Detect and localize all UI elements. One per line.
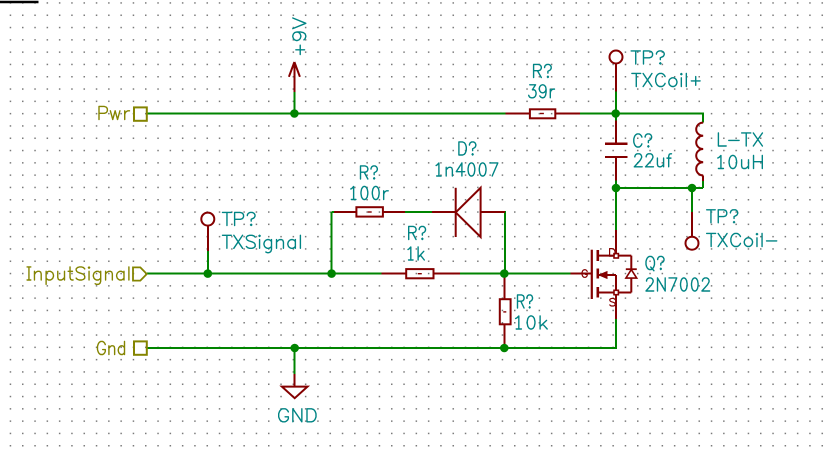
node 10k bottom bbox=[500, 344, 509, 353]
port Pwr box bbox=[134, 107, 147, 120]
test point TP TXSignal circle bbox=[201, 213, 214, 226]
node TXCoil- bbox=[688, 184, 697, 193]
label +9V vertical bbox=[293, 18, 306, 55]
node C/L bottom bbox=[612, 184, 621, 193]
wire drain link green bbox=[615, 188, 617, 230]
resistor R3 1k body bbox=[406, 269, 433, 278]
port Gnd box bbox=[134, 341, 147, 354]
label TP? of TXSignal bbox=[223, 212, 256, 225]
resistor R1 39r body bbox=[530, 109, 555, 118]
wire TP TXSignal stem green bbox=[207, 251, 209, 274]
label TP? of TXCoil- bbox=[707, 210, 738, 223]
node gate/10k bbox=[500, 269, 509, 278]
wire Gnd bus bbox=[147, 347, 617, 349]
node +9V/Pwr bbox=[290, 109, 299, 118]
wire GND stem green bbox=[294, 348, 296, 374]
label R? of 100r bbox=[361, 166, 378, 179]
wire inductor stubs green bbox=[702, 114, 704, 189]
node top right bbox=[611, 109, 620, 118]
test point TP TXCoil- circle bbox=[686, 237, 699, 250]
label R? of 10k bbox=[518, 295, 533, 308]
label 10k bbox=[516, 316, 548, 329]
label Q? bbox=[646, 256, 664, 270]
power symbol +9V arrow bbox=[289, 62, 300, 77]
label R? of 1k bbox=[409, 226, 426, 239]
wire TP TXCoil- stem green bbox=[691, 188, 693, 212]
label C? bbox=[634, 134, 652, 147]
label 22uf bbox=[634, 154, 671, 167]
label TXCoil+ bbox=[632, 73, 700, 86]
diode D1 bbox=[456, 188, 481, 237]
wire bottom LC link bbox=[616, 187, 703, 189]
wire Pwr bus right segment bbox=[580, 113, 704, 115]
ground symbol GND triangle bbox=[282, 387, 308, 399]
label L-TX bbox=[718, 133, 762, 146]
test point TP TXCoil+ circle bbox=[610, 51, 623, 64]
inductor L-TX coil bbox=[696, 123, 703, 176]
label R? of 39r bbox=[534, 64, 552, 77]
sheet border fragment top-left bbox=[0, 1, 39, 3]
port InputSignal pentagon bbox=[133, 267, 147, 280]
label InputSignal bbox=[27, 267, 129, 284]
pin label D bbox=[610, 249, 615, 257]
transistor Q1 2N7002 bbox=[592, 250, 637, 299]
capacitor C1 plates bbox=[605, 144, 628, 157]
wire TP TXCoil+ stem green bbox=[615, 91, 617, 113]
wire diode anode corner green bbox=[504, 212, 506, 274]
label 1n4007 bbox=[436, 163, 498, 176]
node 100r branch bbox=[327, 269, 336, 278]
node TXSignal bbox=[204, 269, 213, 278]
label Gnd bbox=[98, 341, 125, 354]
wire branch up to 100r green bbox=[332, 212, 334, 274]
wire Pwr bus left segment bbox=[147, 113, 506, 115]
wire +9V stem green bbox=[293, 92, 295, 114]
label TXCoil- bbox=[707, 233, 777, 246]
label GND bbox=[279, 409, 316, 422]
label 10uH bbox=[718, 155, 763, 168]
pin label G bbox=[582, 270, 587, 278]
label 39r bbox=[529, 85, 555, 98]
label D? bbox=[459, 142, 476, 155]
wire capacitor branch green bits bbox=[615, 114, 617, 189]
label Pwr bbox=[99, 106, 130, 119]
resistor R2 100r body bbox=[356, 207, 383, 216]
component pin stubs (dark red) bbox=[208, 62, 703, 387]
label TP? of TXCoil+ bbox=[631, 51, 664, 64]
wire source link green bbox=[615, 319, 617, 349]
wire InputSignal segments green bbox=[147, 273, 571, 275]
label 1k bbox=[408, 247, 424, 260]
resistor R4 10k body bbox=[500, 299, 511, 324]
wire 100r to diode green bbox=[405, 211, 432, 213]
label 100r bbox=[351, 186, 388, 199]
label 2N7002 bbox=[646, 278, 710, 291]
label TXSignal bbox=[223, 235, 301, 252]
node GND stem bbox=[290, 344, 299, 353]
pin label S bbox=[610, 298, 615, 306]
